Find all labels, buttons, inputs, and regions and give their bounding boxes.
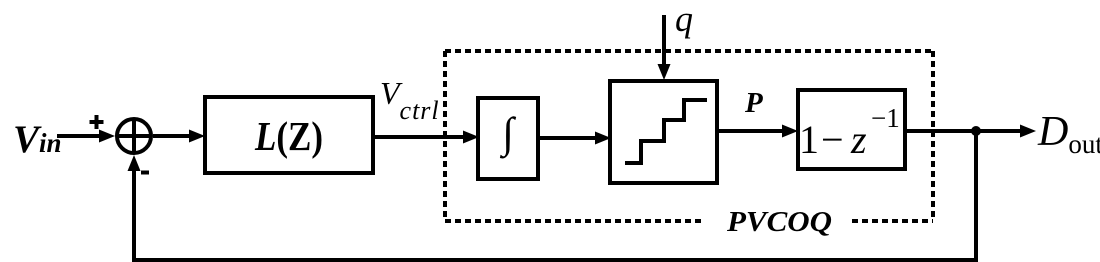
staircase bbox=[625, 100, 707, 163]
wire summing junction to L(Z) bbox=[153, 134, 192, 138]
wire feedback bottom horizontal bbox=[132, 258, 978, 262]
wire q input bbox=[662, 15, 666, 68]
wire Vin to summing junction bbox=[57, 134, 101, 138]
arrowhead q into quantizer bbox=[658, 64, 671, 80]
arrowhead into integrator bbox=[463, 131, 479, 144]
block integrator bbox=[478, 98, 538, 179]
arrowhead P into delta block bbox=[782, 125, 798, 138]
svg-text:1−z−1: 1−z−1 bbox=[799, 103, 900, 162]
wire P: quantizer to delta block bbox=[717, 129, 786, 133]
block quantizer bbox=[610, 81, 717, 183]
arrowhead feedback into summing junction bbox=[128, 155, 141, 171]
block 1 - z^-1 bbox=[798, 90, 905, 169]
wire feedback right vertical bbox=[974, 131, 978, 258]
svg-text:PVCOQ: PVCOQ bbox=[726, 206, 832, 238]
junction dot bbox=[971, 126, 981, 136]
summing junction circle bbox=[117, 119, 151, 153]
svg-text:q: q bbox=[675, 0, 693, 39]
arrowhead into quantizer bbox=[595, 132, 611, 145]
wire delta block to output bbox=[905, 129, 1022, 133]
dashed box PVCOQ bbox=[445, 51, 933, 221]
minus sign bbox=[141, 171, 149, 175]
svg-text:Vctrl: Vctrl bbox=[380, 75, 440, 125]
wire L(Z) to integrator bbox=[373, 135, 466, 139]
arrowhead into L(Z) bbox=[189, 130, 205, 143]
arrowhead into summing junction bbox=[99, 130, 115, 143]
svg-text:P: P bbox=[744, 87, 763, 119]
plus sign bbox=[90, 115, 104, 129]
wire feedback left vertical bbox=[132, 167, 136, 260]
wire integrator to quantizer bbox=[538, 136, 598, 140]
arrowhead to D out bbox=[1020, 125, 1036, 138]
svg-text:Dout: Dout bbox=[1037, 109, 1100, 159]
svg-text:∫: ∫ bbox=[499, 110, 516, 159]
svg-text:Vin: Vin bbox=[13, 118, 62, 161]
block L(Z) bbox=[205, 97, 373, 173]
svg-text:L(Z): L(Z) bbox=[254, 113, 323, 159]
